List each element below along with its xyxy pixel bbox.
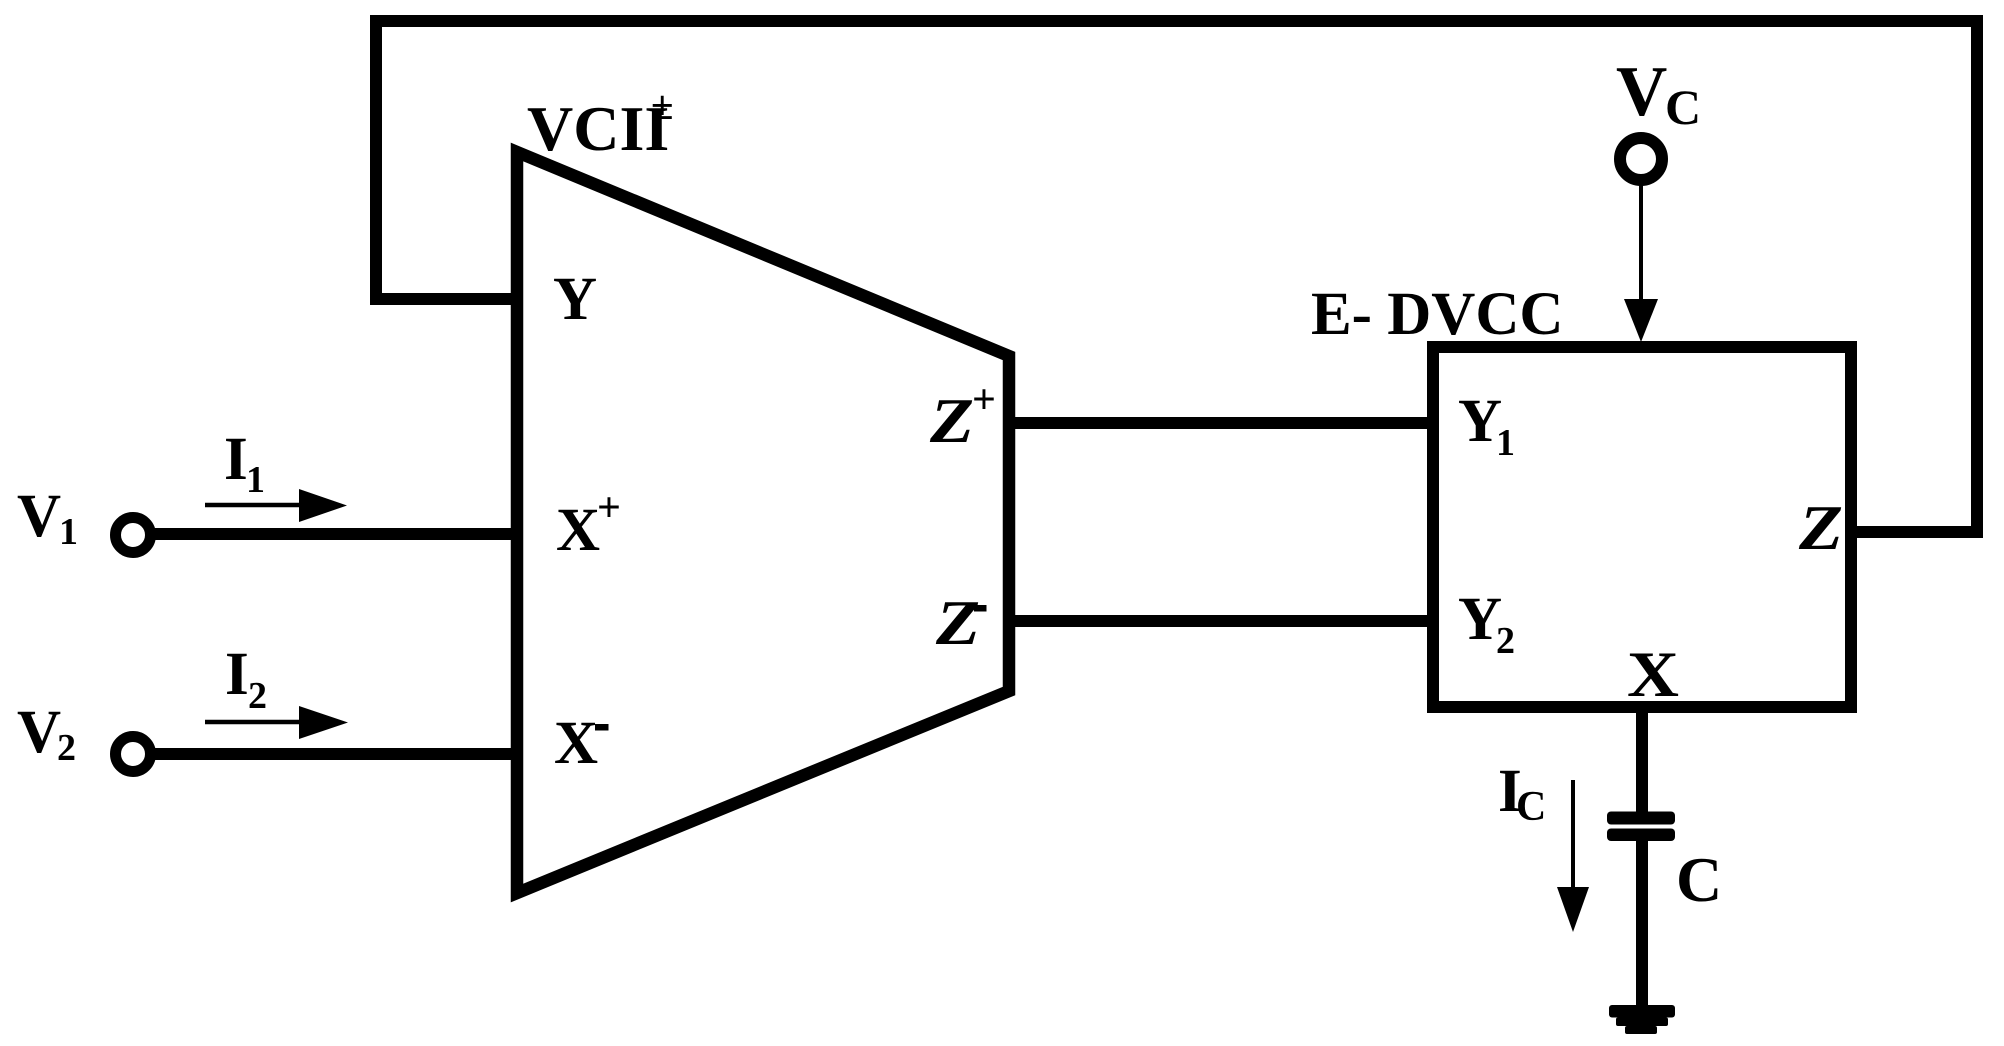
svg-text:X: X bbox=[556, 497, 600, 564]
svg-text:2: 2 bbox=[248, 675, 267, 717]
svg-text:V: V bbox=[17, 483, 61, 550]
svg-text:1: 1 bbox=[1496, 422, 1515, 464]
svg-text:VCII: VCII bbox=[527, 93, 669, 164]
svg-text:2: 2 bbox=[1496, 620, 1515, 662]
svg-text:I: I bbox=[224, 426, 248, 493]
svg-text:I: I bbox=[225, 641, 249, 708]
svg-text:X: X bbox=[1627, 639, 1679, 711]
svg-text:Z: Z bbox=[929, 385, 974, 456]
svg-text:V: V bbox=[17, 699, 61, 766]
svg-text:C: C bbox=[1665, 79, 1701, 135]
svg-text:+: + bbox=[972, 377, 996, 423]
svg-text:±: ± bbox=[651, 82, 674, 128]
svg-text:Z: Z bbox=[935, 587, 980, 658]
svg-text:1: 1 bbox=[246, 459, 265, 501]
svg-text:E- DVCC: E- DVCC bbox=[1311, 281, 1563, 348]
svg-text:Y: Y bbox=[553, 266, 597, 333]
svg-text:2: 2 bbox=[57, 727, 76, 769]
svg-text:C: C bbox=[1516, 784, 1546, 830]
svg-text:X: X bbox=[554, 710, 598, 777]
svg-text:C: C bbox=[1676, 844, 1722, 915]
svg-text:1: 1 bbox=[59, 511, 78, 553]
svg-text:V: V bbox=[1616, 53, 1667, 131]
svg-text:+: + bbox=[597, 485, 621, 531]
svg-text:Z: Z bbox=[1798, 492, 1843, 563]
